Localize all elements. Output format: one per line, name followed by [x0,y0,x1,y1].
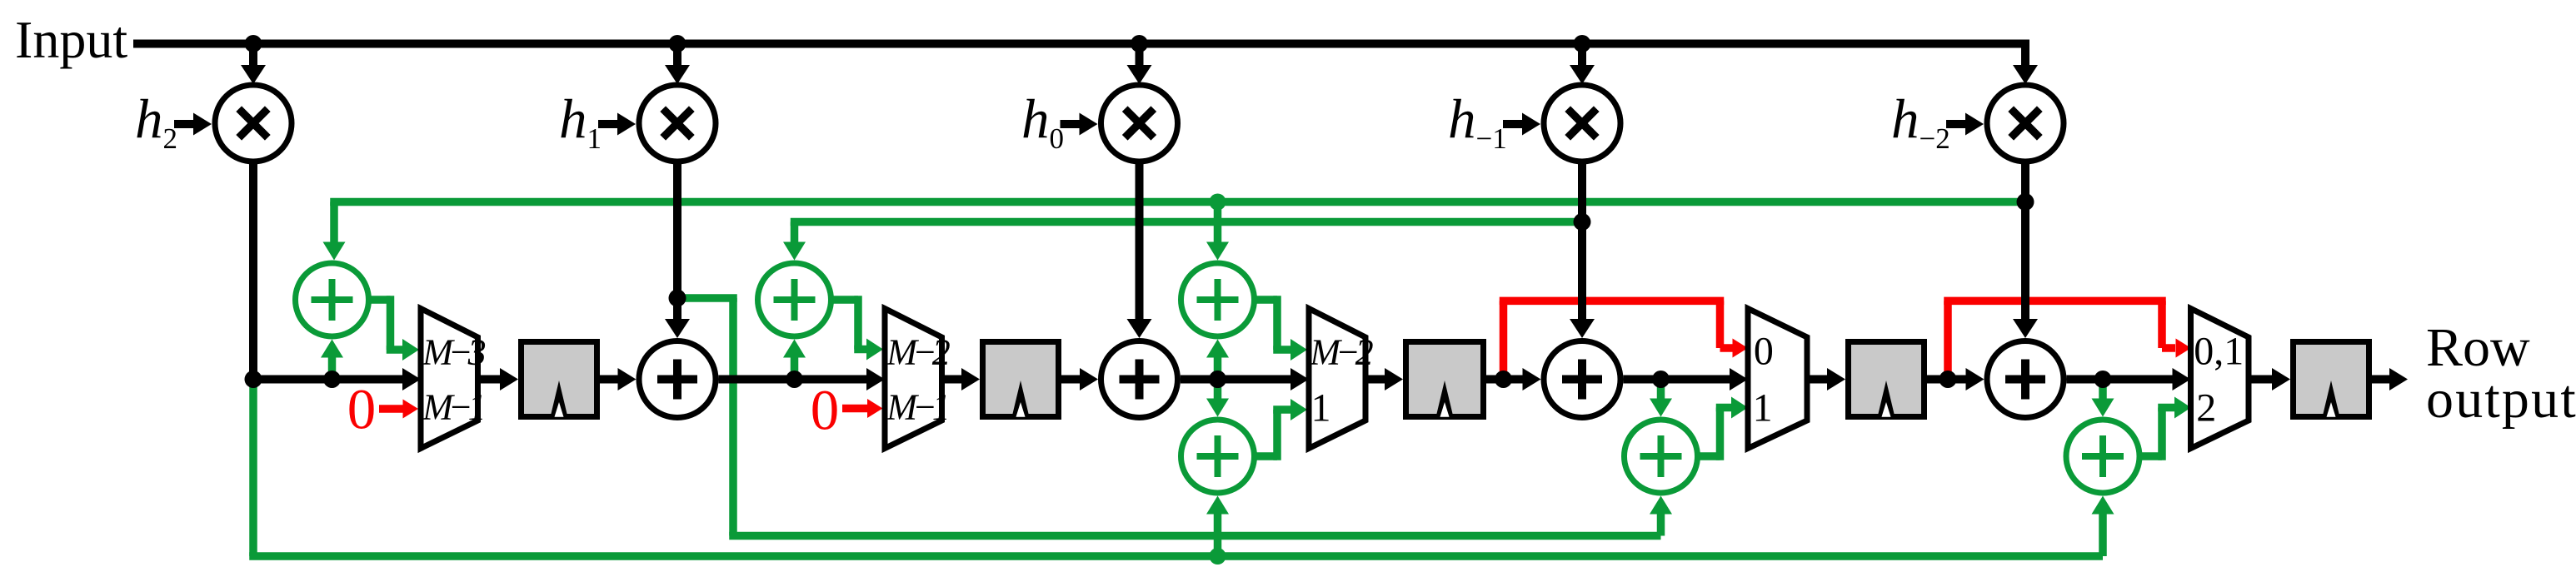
wire: row line segment into mux X1 [253,368,421,390]
node: junction on input bus at column 2 [669,35,686,52]
svg-text:0,1: 0,1 [2194,330,2244,374]
wire: drop from input bus into multiplier M5 [2013,44,2038,85]
node: junction multiplier M1 output onto row line [245,371,262,388]
svg-text:M−1: M−1 [886,387,946,428]
wire: green branch from bus B4 up into adder G3b [1206,496,1229,557]
wire: row line segment into mux X4 [1624,368,1749,390]
node: junction reg D3 output red tap [1495,371,1512,388]
node: junction reg D4 output red tap [1939,371,1957,388]
svg-text:h−2: h−2 [1891,88,1950,155]
mux X4 [1748,309,1807,449]
svg-text:0: 0 [1754,330,1774,374]
multiplier M2 (h1 tap) [639,85,716,162]
register D4 [1849,342,1925,418]
wire: drop from input bus into multiplier M1 [241,44,266,85]
node: junction bus B2 meets h-1 column [1574,213,1591,231]
wire: row line segment into reg D4 [1807,368,1845,390]
wire: coefficient arrow into multiplier M2 [598,113,636,136]
wire: row line segment into mux X2 [719,368,886,390]
wire: green elbow adder G3b output to mux X3 input 1 [1255,399,1308,460]
svg-text:1: 1 [1311,386,1331,430]
svg-text:M−3: M−3 [422,332,485,373]
wire: row line segment into mux X3 [1181,368,1309,390]
wire: coefficient arrow into multiplier M3 [1061,113,1098,136]
wire: multiplier M2 product down into adder A1 [665,162,690,338]
wire: green feedforward bus B3 into adder G4 [729,496,1672,536]
adder G5 (green symmetric-tap adder) [2066,420,2139,493]
svg-text:2: 2 [2196,386,2216,430]
node: junction on input bus at column 4 [1574,35,1591,52]
adder G4 (green symmetric-tap adder) [1625,420,1698,493]
wire: drop from input bus into multiplier M4 [1570,44,1595,85]
wire: multiplier M4 product down into adder A3 [1570,162,1595,338]
wire: green arrow from row line down into adder top at x=2524.0 [2092,380,2114,417]
wire: row line segment into reg D1 [478,368,519,390]
wire: green elbow adder G5 output to mux X5 input 2 [2139,397,2191,460]
svg-text:M−1: M−1 [422,387,482,428]
wire: coefficient arrow into multiplier M5 [1946,113,1984,136]
wire: row line segment into row output [2372,368,2408,390]
wire: red zero input into mux X2 (M-1) [842,399,883,418]
multiplier M5 (h−2 tap) [1987,85,2064,162]
wire: green feedforward bus B4 into adder G5 [249,496,2114,557]
wire: row line segment into adder A1 [600,368,637,390]
svg-text:h0: h0 [1021,88,1064,155]
wire: red zero input into mux X1 (M-1) [379,400,418,419]
svg-text:M−2: M−2 [886,332,950,373]
wire: row line segment into mux X5 [2067,368,2191,390]
multiplier M4 (h−1 tap) [1544,85,1620,162]
svg-text:Input: Input [15,10,127,69]
adder G2 (green symmetric-tap adder) [758,263,831,336]
node: junction h1 product tap [669,290,686,307]
node: junction row line tap to upper green adder at x=1461.5 [1209,371,1226,388]
wire: green tap of h1 product down to bus B3 [677,298,737,536]
register D3 [1406,342,1484,418]
wire: row line segment into adder A3 [1486,368,1541,390]
wire: row line segment into reg D3 [1365,368,1403,390]
mux X1 [421,309,478,449]
node: junction row line tap to lower green adder at x=1461.5 [1209,371,1226,388]
svg-text:0: 0 [347,378,377,441]
net label: Row output [2426,317,2576,430]
multiplier M3 (h0 tap) [1101,85,1178,162]
adder A2 (black) [1101,341,1178,418]
node: junction on input bus at column 3 [1131,35,1148,52]
svg-text:h2: h2 [135,88,177,155]
wire: green elbow adder G4 output to mux X4 input 1 [1698,397,1749,460]
node: junction row line tap to upper green adder at x=398.5 [323,371,341,388]
wire: multiplier M3 product down into adder A2 [1127,162,1152,338]
wire: input bus across the top [133,40,2029,48]
wire: row line segment into adder A4 [1927,368,1984,390]
adder G3b (green symmetric-tap adder) [1181,420,1255,493]
wire: row line segment into reg D2 [942,368,981,390]
node: junction on input bus at column 1 [245,35,262,52]
wire: green feedback bus B2 from h-1 column to adder G2 [783,222,1582,261]
mux X5 [2191,309,2249,449]
node: green junction on bus B1 [1210,194,1226,211]
wire: green arrow from row line up into adder bottom at x=953.5 [783,340,806,380]
wire: red bypass from reg D4 output around adder A4 to mux X5 input 0,1 [1944,301,2191,379]
wire: green branch from bus B1 down into adder G3a [1206,202,1229,261]
wire: green elbow adder G1 output to mux X1 input M-3 [369,296,420,361]
wire: red bypass from reg D3 output around adder A3 to mux X4 input 0 [1500,301,1748,379]
wire: drop from input bus into multiplier M3 [1127,44,1152,85]
wire: green elbow adder G2 output to mux X2 input M-2 [831,296,884,360]
svg-text:0: 0 [811,379,840,442]
register D2 [983,342,1059,418]
wire: green arrow from row line up into adder bottom at x=1461.5 [1206,340,1229,380]
svg-text:output: output [2426,369,2576,430]
wire: row line segment into adder A2 [1061,368,1098,390]
register D5 [2294,342,2369,418]
wire: green elbow adder G3a output to mux X3 input M-2 [1255,296,1308,361]
wire: green arrow from row line down into adder top at x=1993.5 [1650,380,1672,417]
adder A4 (black) [1987,341,2064,418]
svg-text:h−1: h−1 [1448,88,1507,155]
adder G3a (green symmetric-tap adder) [1181,263,1255,336]
wire: green tap of h2 product down to bus B4 [249,380,257,557]
wire: multiplier M1 output down to row line [249,162,257,380]
wire: row line segment into reg D5 [2249,368,2290,390]
node: green junction on bus B4 [1210,548,1226,565]
wire: green arrow from row line up into adder bottom at x=398.5 [321,340,343,380]
svg-text:h1: h1 [559,88,602,155]
node: junction row line tap to lower green adder at x=1993.5 [1652,371,1670,388]
node: junction row line tap to lower green adder at x=2524.0 [2094,371,2112,388]
adder A3 (black) [1544,341,1620,418]
wire: green feedback bus B1 from h-2 column to adder G1 [323,202,2026,261]
wire: drop from input bus into multiplier M2 [665,44,690,85]
mux X2 [885,309,942,449]
adder G1 (green symmetric-tap adder) [296,263,369,336]
wire: multiplier M5 product down into adder A4 [2013,162,2038,338]
wire: coefficient arrow into multiplier M1 [174,113,212,136]
svg-text:1: 1 [1753,386,1773,430]
multiplier M1 (h2 tap) [215,85,292,162]
wire: coefficient arrow into multiplier M4 [1503,113,1540,136]
wire: green arrow from row line down into adder top at x=1461.5 [1206,380,1229,417]
adder A1 (black) [639,341,716,418]
node: junction row line tap to upper green adder at x=953.5 [786,371,803,388]
svg-text:M−2: M−2 [1309,332,1373,373]
node: junction bus B1 meets h-2 column [2017,193,2034,211]
register D1 [522,342,597,418]
mux X3 [1309,309,1365,449]
